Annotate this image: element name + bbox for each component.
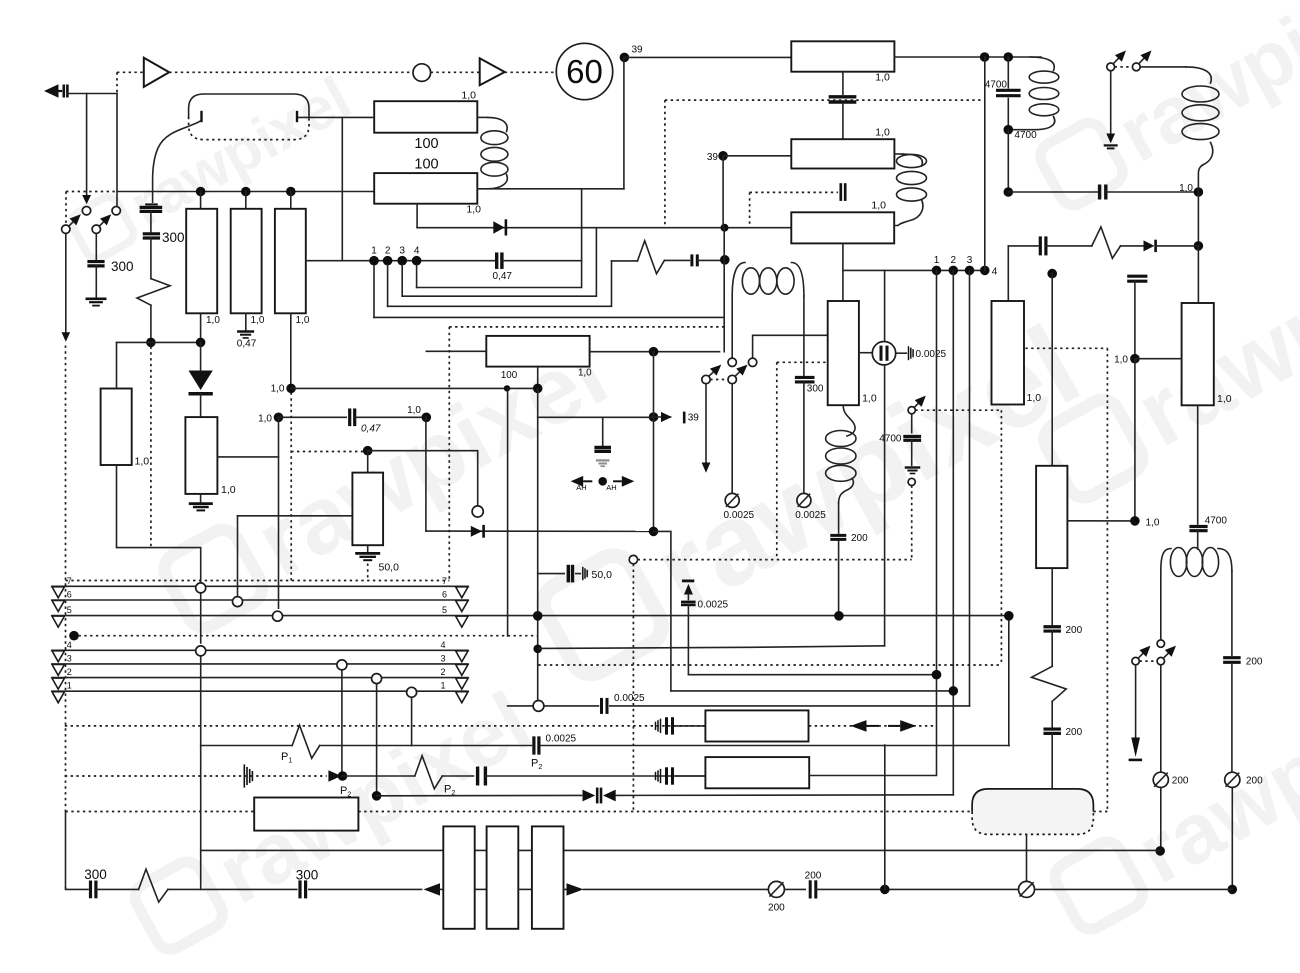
terminal row 7 [52, 585, 468, 587]
wire eye column upper [884, 270, 886, 341]
node dot right 192 [1194, 187, 1204, 197]
svg-text:0.0025: 0.0025 [916, 349, 947, 360]
small ground [1104, 144, 1118, 146]
staircase row 1 [374, 316, 724, 318]
wire R10 bottom tap [537, 367, 539, 384]
dotted drop x633 [632, 564, 634, 812]
junction dot oscillator top [720, 255, 730, 265]
resistor R3t 1,0 (third) [791, 212, 894, 243]
coil L2 top right [1030, 57, 1054, 71]
variable capacitor slash circle 200 [1153, 772, 1168, 787]
svg-text:1,0: 1,0 [271, 384, 285, 395]
wire to IF can [1051, 733, 1053, 789]
svg-text:5: 5 [67, 605, 72, 615]
svg-text:1: 1 [934, 255, 940, 266]
wire R1t to coil node [894, 56, 1041, 58]
svg-text:300: 300 [162, 230, 185, 245]
svg-text:1,0: 1,0 [466, 204, 481, 216]
switch S1b moving contact [92, 225, 100, 233]
wire R3t bottom to pins line and box R8 [842, 243, 844, 301]
bus wire y191 solid [117, 191, 374, 193]
svg-text:1,0: 1,0 [461, 90, 476, 102]
svg-text:1,0: 1,0 [296, 315, 310, 326]
capacitor C300b [298, 880, 301, 898]
svg-text:4700: 4700 [879, 434, 902, 445]
svg-text:3: 3 [967, 255, 973, 266]
wire L6 left leg to switch [1160, 571, 1162, 640]
bottom-left solid rail x65 [65, 812, 67, 888]
switch arm arrows NE [1114, 58, 1119, 63]
svg-text:50,0: 50,0 [592, 569, 613, 581]
resistor R11 1,0 [185, 417, 217, 494]
node dot 246 [1194, 241, 1204, 251]
terminal row 4 [52, 649, 468, 651]
resistor R4t 1,0 [992, 301, 1025, 405]
node T wire down from tube line [341, 117, 343, 260]
wire y417 left with capacitor C12 0,47 [279, 416, 347, 418]
wire C2 to ground [95, 266, 97, 299]
wire y520 link [1067, 520, 1135, 522]
dotted corner x449 [448, 327, 450, 581]
dotted line to dial 60 [505, 71, 557, 73]
oscillator switch fixed contacts [728, 358, 736, 366]
dotted y451 link [291, 451, 364, 453]
svg-text:1,0: 1,0 [871, 200, 886, 212]
wire tube pin to RA [298, 116, 374, 118]
amp triangle 1 [144, 58, 169, 87]
wire L4 left leg to fixed contact [731, 296, 733, 358]
svg-text:4: 4 [414, 245, 420, 256]
diode D1 [493, 221, 504, 233]
dotted from trimmer switch to x1001 [915, 409, 1001, 411]
variable capacitor slash circle 200 right [1225, 772, 1240, 787]
comb-capacitor before box H2 [655, 772, 657, 780]
wire x653 down [653, 352, 655, 532]
switch S1 fixed contact [82, 207, 90, 215]
pins line 1-4 right [843, 269, 985, 271]
svg-text:1,0: 1,0 [1146, 518, 1160, 529]
left arrow into filter [424, 883, 441, 895]
svg-text:1,0: 1,0 [875, 127, 890, 139]
wire moving A down with arrowhead [705, 384, 707, 463]
wire node39-2 down [722, 156, 724, 228]
dotted y726 left segment with arrows [65, 725, 706, 727]
svg-text:4: 4 [440, 640, 445, 650]
node 39 dot 1 [620, 53, 630, 63]
resistor R5 1,0 [275, 209, 306, 313]
trimmer arrow 0.0025 vertical [682, 580, 694, 583]
rotary switch bottom right [1157, 640, 1164, 647]
wire moving B down to variable cap [731, 384, 733, 494]
resistor R13 [1036, 466, 1067, 568]
wire x237 corner to row6 [237, 516, 239, 595]
vertical wire x724 [723, 228, 725, 352]
wire node39-2 to R2t [723, 155, 791, 157]
svg-text:100: 100 [414, 136, 438, 152]
dotted oscillator frame [777, 361, 828, 363]
wire switch to ground arrow [1110, 71, 1112, 134]
svg-text:39: 39 [632, 45, 644, 56]
antenna/speaker arrow with capacitor [44, 84, 59, 98]
node 39 dot 2 [718, 151, 728, 161]
diode chain: node dot to diode D4 [200, 342, 202, 371]
junction dot x537 y648 [533, 645, 542, 654]
wire R3 down to node [200, 313, 202, 342]
dotted wire to amp triangle [116, 72, 118, 93]
capacitor C2 300 [87, 260, 104, 263]
arrowhead into switch S1 [82, 195, 91, 204]
bus wire to slash cap [584, 888, 769, 890]
dotted bus y635 [79, 635, 538, 637]
svg-text:7: 7 [67, 576, 72, 586]
resistor R8 1,0 tall [828, 301, 859, 405]
P2 line right to pin1 riser [809, 775, 936, 777]
svg-text:1,0: 1,0 [206, 315, 220, 326]
dotted y348 top right [1025, 347, 1107, 349]
svg-text:0,47: 0,47 [493, 271, 513, 282]
wire R12 to ground [367, 545, 369, 552]
wire L4 right leg through cap C300 [803, 296, 805, 375]
wire y417 right segment [538, 416, 654, 418]
trimmer bars 0.0025 [908, 346, 910, 360]
staircase wires from pins [373, 265, 375, 317]
wire to bus junction [1160, 787, 1162, 851]
wire to capacitor C2 [95, 234, 97, 260]
junction dot 351 [649, 347, 659, 357]
wire R5t to capacitor C10 4700 [1197, 405, 1199, 524]
P1 line y745 [201, 745, 293, 747]
wire switch to coil L3 [1140, 66, 1186, 68]
wire left of R10 [426, 350, 486, 352]
capacitor C3 (3-bar) [145, 203, 158, 205]
svg-text:1: 1 [371, 245, 377, 256]
bus wire [96, 888, 138, 890]
resistor R5t 1,0 [1182, 303, 1214, 405]
svg-text:6: 6 [67, 590, 72, 600]
wire switch S1 arm down with arrowhead [65, 234, 67, 334]
dotted bus y580 [66, 580, 450, 582]
dotted line to indicator circle [169, 71, 413, 73]
capacitor C300 bottom left [89, 881, 92, 899]
dotted drop x1001 [1000, 410, 1002, 665]
tube V1 right pin [296, 111, 298, 122]
ground [237, 330, 254, 332]
svg-text:2: 2 [385, 245, 391, 256]
diode D2 [1144, 240, 1155, 251]
svg-text:39: 39 [707, 152, 719, 163]
y795 line with butterfly cap [372, 791, 382, 801]
filter link [518, 888, 532, 890]
capacitor C13 with gray ground (AH) [602, 417, 604, 445]
row5 junction dots [533, 611, 543, 621]
svg-text:300: 300 [111, 259, 134, 274]
variable capacitor slash 0.0025 A [725, 493, 739, 507]
coil L7 between R2t and R3t [894, 153, 903, 155]
wire R13 to capacitor 200a [1051, 568, 1053, 625]
wire fixed2 up and right to resistor R8 [753, 335, 828, 358]
tube envelope V1 (top solid, bottom dotted) [189, 94, 309, 117]
svg-text:300: 300 [296, 868, 319, 883]
IF can rounded (gray, half dotted) [972, 789, 1093, 812]
dotted link [710, 379, 728, 381]
wire x884 lower segment [884, 745, 886, 889]
node dots top right [980, 52, 990, 62]
staircase row 2 [388, 261, 612, 306]
svg-text:0.0025: 0.0025 [724, 510, 755, 521]
switch S1 arm arrow [69, 222, 73, 226]
wire node to R5t [1135, 358, 1182, 360]
svg-text:2: 2 [440, 667, 445, 677]
svg-text:0,47: 0,47 [237, 339, 257, 350]
wire right of R10 to corner x724 [590, 351, 720, 353]
wire down to resistor R6 [116, 342, 118, 388]
svg-text:200: 200 [1246, 657, 1263, 668]
resistor R10 100/1,0 horizontal [486, 336, 589, 367]
node dot 1,0 b [1130, 516, 1140, 526]
wire node450 down to resistor R12 [367, 451, 369, 473]
switch S1b fixed contact [112, 207, 120, 215]
wire eye column lower [884, 365, 886, 646]
capacitor C11 top [1127, 275, 1147, 278]
wire IF can to bus and slash cap [1026, 834, 1028, 881]
svg-text:200: 200 [1246, 776, 1263, 787]
wire switch B down through variable cap [1160, 665, 1162, 772]
resistor RB 1,0 (lower) [374, 173, 477, 204]
terminal row 1 [52, 690, 468, 692]
dotted top edge y327 [449, 326, 724, 328]
wire row1 drop [411, 694, 413, 746]
switch S1 moving contact [62, 225, 70, 233]
node dots feeding resistor bank [196, 187, 206, 197]
wire R6 down and right [117, 465, 201, 584]
node dots y388 line [291, 387, 538, 389]
staircase row 4 [417, 189, 582, 288]
dotted branch with capacitor y192 [750, 191, 838, 193]
wire pin2 drop [952, 270, 954, 794]
wire R5 down to node [290, 313, 292, 383]
wire pin3 drop [969, 270, 971, 706]
wire 192 down to node 246 [1197, 192, 1199, 246]
tube V1 left pin [200, 111, 202, 122]
line y690 to pin2 dot [671, 690, 953, 692]
node dot y450 [363, 446, 373, 456]
box H1 [705, 710, 808, 741]
coil L1 between RA and RB [477, 116, 487, 118]
svg-text:1,0: 1,0 [1027, 392, 1042, 404]
wire x537 drop to circle [537, 388, 539, 701]
wire y450 to corner and circle [368, 451, 478, 506]
dotted from trimmer circle down [911, 486, 913, 560]
comb-capacitor before box H1 [655, 722, 657, 730]
oscillator coil L4 [732, 263, 745, 297]
node dot 4700 [1007, 98, 1009, 129]
wire L6 right leg through cap 200 [1231, 571, 1233, 655]
svg-text:1: 1 [67, 681, 72, 691]
resistor RA 1,0 (upper) [374, 101, 477, 133]
long dotted vertical x151 [150, 347, 152, 548]
dotted bus segment y191 [66, 191, 117, 193]
wire node246 down to resistor R5t [1197, 246, 1199, 303]
svg-text:AH: AH [576, 483, 586, 492]
svg-text:39: 39 [688, 413, 700, 424]
svg-text:300: 300 [807, 384, 824, 395]
wire dot531 to corner x671 [649, 527, 659, 537]
svg-text:1,0: 1,0 [251, 315, 265, 326]
magic eye cap symbol [859, 352, 872, 354]
svg-text:200: 200 [851, 533, 868, 544]
svg-text:3: 3 [399, 245, 405, 256]
dial circle 60 [556, 43, 612, 99]
svg-text:1,0: 1,0 [407, 405, 421, 416]
resistor jag R9 vertical [1032, 666, 1067, 701]
amp triangle 2 [480, 58, 505, 85]
node dot 1,0 a [1130, 354, 1140, 364]
svg-text:1,0: 1,0 [862, 393, 877, 405]
wire tube left pin curving to cap chain [153, 121, 201, 202]
svg-text:0.0025: 0.0025 [614, 693, 645, 704]
wire [150, 211, 152, 231]
wire pin1 drop [936, 270, 938, 774]
svg-text:0.0025: 0.0025 [698, 600, 729, 611]
pin dots 1 2 3 4 [369, 256, 379, 266]
y706 line with circle and cap 0.0025 [508, 705, 599, 707]
filter box F1 [443, 826, 474, 928]
svg-text:1,0: 1,0 [221, 484, 236, 496]
wire x200 long drop [200, 591, 202, 643]
svg-text:AH: AH [606, 483, 616, 492]
svg-text:1,0: 1,0 [258, 414, 272, 425]
dotted link between switch contacts [1115, 66, 1133, 68]
wire to bottom bus [1231, 787, 1233, 889]
dotted y665 long [538, 664, 1001, 666]
resistor R6 1,0 [101, 389, 132, 466]
wire x1008 down to resistor R4t [1007, 246, 1009, 301]
capacitor C8 4700 [1007, 57, 1009, 88]
right arrow out of filter [564, 888, 567, 890]
svg-text:1,0: 1,0 [875, 72, 890, 84]
wire with capacitor C9 y192 [1008, 191, 1097, 193]
terminal row 3 [52, 663, 468, 665]
node dot line y417 left [274, 413, 284, 423]
svg-text:1,0: 1,0 [1179, 183, 1193, 194]
wire RB bottom tap [416, 204, 418, 228]
resistor R3 1,0 [186, 209, 217, 313]
variable capacitor slash 0.0025 B [797, 493, 811, 507]
svg-text:200: 200 [1066, 625, 1083, 636]
wire x507 drop [507, 388, 509, 636]
oscillator switch moving contacts [702, 375, 710, 383]
bus junction dot [880, 885, 890, 895]
wire row2 drop [376, 680, 378, 796]
svg-text:0,47: 0,47 [361, 424, 381, 435]
variable capacitor slash 200 on bus [768, 881, 784, 897]
svg-text:200: 200 [768, 903, 785, 914]
dotted right rail x1107 [1106, 348, 1108, 811]
dotted y100 top [665, 99, 981, 101]
resistor jag bottom left [139, 869, 168, 902]
svg-text:1,0: 1,0 [578, 368, 592, 379]
dotted stub below ground [367, 564, 369, 581]
svg-text:200: 200 [1172, 776, 1189, 787]
trimmer 4700 with switch arrow [908, 407, 915, 414]
resistor R1t 1,0 (top) [791, 41, 894, 71]
svg-text:100: 100 [501, 370, 518, 381]
svg-text:0.0025: 0.0025 [795, 510, 826, 521]
wire x426 down [425, 417, 427, 531]
box B1 bottom left [254, 798, 358, 831]
dotted L from node388 down [290, 393, 292, 581]
wire down to switch S1b [116, 94, 118, 207]
filter box F2 [487, 826, 519, 928]
wire node down [1134, 359, 1136, 517]
row connection circles [196, 583, 206, 593]
wire R11 right tap [217, 456, 278, 458]
wire node39 down to RB [623, 57, 625, 188]
dotted y811 bus [66, 811, 255, 813]
svg-text:50,0: 50,0 [379, 562, 400, 574]
P2 line with jag and capacitor [343, 775, 415, 777]
svg-text:4: 4 [67, 640, 72, 650]
svg-text:7: 7 [442, 576, 447, 586]
dotted x665 drop [664, 100, 666, 228]
wire pin4 riser [984, 57, 986, 270]
arrow-bar 39 tap [649, 412, 659, 422]
wire y515 from R12-left region to corner [238, 515, 353, 517]
P1 line continues with capacitor 0.0025 [320, 745, 532, 747]
coil L5 below R8 [843, 405, 855, 436]
terminal row 5 [52, 615, 1011, 617]
box H2 [705, 757, 809, 788]
bus wire right [1035, 888, 1233, 890]
wire L5 to capacitor C200 [838, 503, 840, 533]
line y647 to corner x884 [538, 646, 885, 649]
wire stubs to resistor bank [200, 192, 202, 209]
terminal row 2 [52, 677, 468, 679]
wire x278 down to row5 [278, 417, 280, 608]
wire [150, 305, 152, 342]
svg-text:2: 2 [951, 255, 957, 266]
junction dot P2 [338, 771, 348, 781]
wire to capacitor C200b [1051, 701, 1053, 726]
dotted y776 with comb and arrow [65, 775, 327, 777]
dotted line to amp triangle 2 [431, 71, 480, 73]
wire to jag [1051, 631, 1053, 666]
svg-text:300: 300 [84, 867, 107, 882]
wire row3 drop [341, 667, 343, 776]
svg-text:3: 3 [67, 653, 72, 663]
wire RB right to corner [477, 188, 624, 190]
resistor R2t 1,0 (second) [791, 139, 894, 168]
variable capacitor slash on bus center [1019, 881, 1035, 897]
terminal circle on dotted [629, 555, 637, 563]
wire to row5 [838, 541, 840, 611]
svg-text:1,0: 1,0 [135, 456, 150, 468]
dotted bus dot y635 [69, 631, 79, 641]
dotted drop to switch arm [65, 192, 67, 225]
wire R11 to ground [200, 494, 202, 502]
svg-text:200: 200 [805, 871, 822, 882]
wire down to node 192 [1007, 130, 1009, 192]
indicator circle [413, 64, 431, 82]
resistor R12 50,0 [352, 473, 383, 546]
diode line y531 [426, 530, 654, 532]
dotted left rail x65 upper (dotted) [65, 346, 67, 812]
wire cap to riser [503, 260, 582, 262]
corner up to x1008 [1008, 621, 1010, 746]
junction dot on diode line [721, 224, 729, 232]
wire node39 to resistor R1t [624, 56, 791, 58]
coil L3 far top right [1186, 67, 1211, 83]
